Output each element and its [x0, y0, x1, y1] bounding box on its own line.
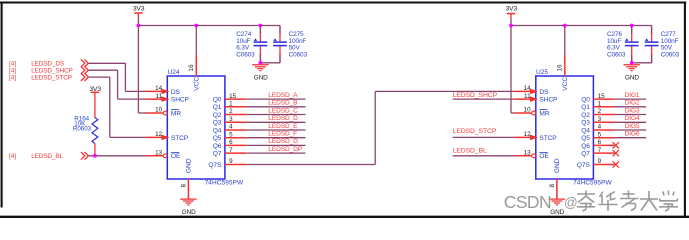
pin 14 DS of U24: [146, 85, 181, 96]
wire 3V3 down to U24 MR: [137, 26, 139, 114]
pin 1 Q1 of U25: [581, 101, 615, 112]
junction 2: [194, 24, 198, 28]
wire U25 Q2 net DIG3: [615, 114, 646, 116]
junction 5: [563, 24, 567, 28]
pin 7 Q7 of U25: [581, 147, 615, 158]
pin 8 GND of U24: [180, 158, 192, 199]
wire right 3V3 rail: [511, 25, 652, 27]
pin 8 GND of U25: [549, 158, 561, 199]
svg-text:Q5: Q5: [213, 135, 222, 142]
wire U25 Q1 net DIG2: [615, 106, 646, 108]
svg-text:Q3: Q3: [213, 120, 222, 127]
svg-text:U25: U25: [536, 69, 548, 76]
wire 3V3 down to U25 MR: [510, 26, 512, 114]
svg-text:5: 5: [229, 131, 233, 138]
power 3V3 (R164 pullup): [89, 86, 101, 97]
junction 1: [137, 24, 141, 28]
junction 7: [259, 61, 263, 65]
wire U24 Q5 net LEDSD_F: [246, 137, 305, 139]
watermark CSDN @ user: [504, 191, 678, 213]
svg-text:4: 4: [229, 124, 233, 131]
junction 4: [509, 24, 513, 28]
svg-text:DIG3: DIG3: [625, 107, 640, 114]
wire U24 Q6 net LEDSD_G: [246, 144, 305, 146]
pin 15 Q0 of U25: [581, 93, 615, 104]
svg-text:GND: GND: [254, 75, 268, 82]
svg-text:15: 15: [229, 93, 237, 100]
svg-text:GND: GND: [186, 158, 193, 173]
wire LEDSD_DS to U24 pin14: [89, 62, 126, 64]
svg-text:3V3: 3V3: [506, 5, 518, 12]
wire LEDSD_SHCP to U24 pin11: [89, 69, 118, 71]
wire U24 Q4 net LEDSD_E: [246, 129, 305, 131]
svg-text:LEDSD_F: LEDSD_F: [268, 131, 297, 138]
svg-text:C0603: C0603: [289, 51, 308, 58]
port LEDSD_BL: [9, 152, 88, 160]
junction 9: [93, 154, 97, 158]
svg-text:1: 1: [598, 101, 602, 108]
svg-text:Q7: Q7: [581, 151, 590, 158]
svg-text:11: 11: [524, 93, 531, 100]
svg-text:C0603: C0603: [236, 51, 255, 58]
wire rail to U24 VCC: [195, 26, 197, 56]
svg-text:MR: MR: [539, 110, 549, 117]
svg-text:74HC595PW: 74HC595PW: [573, 179, 612, 186]
svg-text:OE: OE: [539, 153, 549, 160]
wire net LEDSD_BL to U25 pin13: [453, 155, 515, 157]
wire gnd stem left caps: [259, 63, 261, 65]
pin 13 OE of U24: [146, 150, 181, 161]
svg-text:3V3: 3V3: [133, 5, 145, 12]
svg-text:3: 3: [598, 116, 602, 123]
wire U24 Q3 net LEDSD_D: [246, 121, 305, 123]
pin 14 DS of U25: [515, 85, 550, 96]
svg-text:1: 1: [229, 101, 233, 108]
ground (under C276/C277): [624, 65, 640, 82]
svg-text:MR: MR: [171, 110, 181, 117]
svg-text:9: 9: [598, 158, 602, 165]
svg-text:DIG2: DIG2: [625, 100, 640, 107]
svg-text:[4]: [4]: [9, 153, 16, 160]
svg-text:6: 6: [229, 139, 233, 146]
svg-text:DIG1: DIG1: [625, 92, 640, 99]
svg-text:Q1: Q1: [213, 104, 222, 111]
svg-text:Q3: Q3: [581, 120, 590, 127]
pin 11 SHCP of U24: [146, 93, 190, 104]
pin 9 Q7S of U24: [208, 158, 246, 169]
capacitor C274 (10uF 6.3V C0603): [236, 26, 267, 63]
svg-text:Q1: Q1: [581, 104, 590, 111]
wire cap bottom right pair: [632, 62, 652, 64]
sheet border right edge: [684, 2, 686, 217]
svg-text:14: 14: [524, 85, 532, 92]
pin 6 Q6 of U25: [581, 139, 615, 150]
svg-text:3: 3: [229, 116, 233, 123]
svg-text:R0603: R0603: [73, 126, 92, 133]
svg-text:9: 9: [229, 158, 233, 165]
wire left 3V3 rail: [138, 25, 280, 27]
IC U25 74HC595PW shift register: [536, 69, 613, 186]
svg-text:C0603: C0603: [661, 51, 680, 58]
svg-text:LEDSD_E: LEDSD_E: [268, 123, 298, 130]
capacitor C276 (10uF 6.3V C0603): [607, 26, 639, 63]
svg-text:VCC: VCC: [193, 77, 200, 91]
svg-text:7: 7: [598, 147, 602, 154]
wire U24 Q0 net LEDSD_A: [246, 98, 305, 100]
svg-text:GND: GND: [550, 209, 564, 216]
svg-text:GND: GND: [554, 158, 561, 173]
svg-text:STCP: STCP: [539, 135, 557, 142]
svg-text:4: 4: [598, 124, 602, 131]
pin 2 Q2 of U25: [581, 108, 615, 119]
pin 16 VCC of U25: [557, 55, 569, 91]
IC U24 74HC595PW shift register: [167, 69, 244, 186]
svg-text:13: 13: [155, 150, 163, 157]
svg-text:12: 12: [524, 131, 532, 138]
svg-text:Q2: Q2: [581, 112, 590, 119]
svg-text:DS: DS: [539, 89, 549, 96]
svg-text:LEDSD_B: LEDSD_B: [268, 100, 298, 107]
pin 3 Q3 of U25: [581, 116, 615, 127]
svg-text:74HC595PW: 74HC595PW: [205, 179, 244, 186]
svg-text:2: 2: [598, 108, 602, 115]
port LEDSD_SHCP: [9, 66, 88, 74]
svg-text:Q0: Q0: [213, 97, 222, 104]
svg-text:8: 8: [549, 184, 556, 188]
svg-text:Q7S: Q7S: [577, 162, 591, 169]
no-connect X U25 Q7: [613, 150, 619, 156]
svg-text:16: 16: [188, 64, 195, 72]
svg-text:GND: GND: [182, 209, 196, 216]
pin 12 STCP of U24: [146, 131, 189, 142]
pin 5 Q5 of U25: [581, 131, 615, 142]
svg-text:VCC: VCC: [562, 77, 569, 91]
wire net LEDSD_STCP to U25 pin12: [453, 136, 515, 138]
svg-text:5: 5: [598, 131, 602, 138]
svg-text:7: 7: [229, 147, 233, 154]
svg-text:LEDSD_DP: LEDSD_DP: [268, 146, 302, 153]
power 3V3 (top right rail): [506, 5, 518, 18]
svg-text:@: @: [564, 195, 578, 210]
svg-text:SHCP: SHCP: [171, 97, 190, 104]
svg-text:C0603: C0603: [607, 51, 626, 58]
pin 9 Q7S of U25: [577, 158, 615, 169]
pin 4 Q4 of U24: [213, 124, 247, 135]
svg-text:12: 12: [155, 131, 163, 138]
wire LEDSD_BL to U24 pin13: [89, 155, 146, 157]
svg-text:Q2: Q2: [213, 112, 222, 119]
pin 2 Q2 of U24: [213, 108, 247, 119]
svg-text:Q6: Q6: [581, 143, 590, 150]
pin 13 OE of U25: [515, 150, 550, 161]
svg-text:CSDN: CSDN: [504, 192, 551, 212]
svg-text:10: 10: [524, 107, 532, 114]
svg-text:GND: GND: [625, 75, 639, 82]
svg-text:Q0: Q0: [581, 97, 590, 104]
capacitor C277 (100nF 50V C0603): [645, 26, 680, 63]
svg-text:LEDSD_SHCP: LEDSD_SHCP: [453, 92, 498, 99]
svg-text:13: 13: [524, 150, 532, 157]
pin 15 Q0 of U24: [213, 93, 247, 104]
wire 3V3 stem to right rail: [510, 18, 512, 25]
wire U24 Q7S to U25 DS: [246, 164, 375, 166]
pin 12 STCP of U25: [515, 131, 558, 142]
pin 10 MR of U25: [515, 107, 550, 118]
svg-text:LEDSD_BL: LEDSD_BL: [453, 148, 487, 155]
svg-text:6: 6: [598, 139, 602, 146]
wire net LEDSD_SHCP to U25 pin11: [453, 98, 515, 100]
svg-text:OE: OE: [171, 153, 181, 160]
port LEDSD_DS: [9, 59, 88, 67]
wire U24 Q2 net LEDSD_C: [246, 114, 305, 116]
ground (U24 pin 8): [180, 199, 196, 216]
junction 3: [259, 24, 263, 28]
pin 5 Q5 of U24: [213, 131, 247, 142]
svg-text:2: 2: [229, 108, 233, 115]
pin 11 SHCP of U25: [515, 93, 559, 104]
wire 3V3 stem to left rail: [137, 18, 139, 26]
svg-text:15: 15: [598, 93, 606, 100]
wire rail to U25 VCC: [564, 26, 566, 56]
svg-text:14: 14: [155, 85, 163, 92]
pin 1 Q1 of U24: [213, 101, 247, 112]
wire U25 Q4 net DIG5: [615, 129, 646, 131]
pin 7 Q7 of U24: [213, 147, 247, 158]
sheet border top edge: [0, 1, 686, 3]
ground (under C274/C275): [252, 65, 268, 82]
no-connect X U25 Q6: [613, 142, 619, 148]
junction 8: [630, 61, 634, 65]
power 3V3 (top left rail): [133, 5, 145, 17]
wire U25 Q3 net DIG4: [615, 121, 646, 123]
junction 6: [630, 24, 634, 28]
wire cap bottom left pair: [260, 62, 280, 64]
sheet border left edge: [1, 2, 3, 208]
svg-text:Q7: Q7: [213, 151, 222, 158]
svg-text:LEDSD_STCP: LEDSD_STCP: [453, 128, 497, 135]
wire gnd stem right caps: [631, 63, 633, 65]
capacitor C275 (100nF 50V C0603): [273, 26, 307, 63]
pin 10 MR of U24: [146, 107, 181, 118]
pin 3 Q3 of U24: [213, 116, 247, 127]
svg-text:LEDSD_STCP: LEDSD_STCP: [31, 75, 72, 82]
svg-text:SHCP: SHCP: [539, 97, 558, 104]
pin 16 VCC of U24: [188, 55, 200, 91]
svg-text:10: 10: [155, 107, 163, 114]
svg-text:LEDSD_A: LEDSD_A: [268, 92, 298, 99]
wire U24 Q1 net LEDSD_B: [246, 106, 305, 108]
svg-text:DIG5: DIG5: [625, 123, 640, 130]
no-connect X U25 Q7S: [613, 161, 619, 167]
ground (U25 pin 8): [549, 199, 565, 216]
svg-text:LEDSD_BL: LEDSD_BL: [31, 153, 63, 160]
svg-text:Q7S: Q7S: [208, 162, 222, 169]
svg-text:Q6: Q6: [213, 143, 222, 150]
svg-text:Q4: Q4: [581, 127, 590, 134]
svg-text:DS: DS: [171, 89, 181, 96]
svg-text:16: 16: [557, 64, 564, 72]
svg-text:LEDSD_C: LEDSD_C: [268, 107, 298, 114]
wire U25 Q0 net DIG1: [615, 98, 646, 100]
wire LEDSD_STCP to U24 pin12: [89, 76, 110, 78]
svg-text:Q4: Q4: [213, 127, 222, 134]
svg-text:U24: U24: [168, 69, 180, 76]
svg-text:Q5: Q5: [581, 135, 590, 142]
pin 4 Q4 of U25: [581, 124, 615, 135]
port LEDSD_STCP: [9, 73, 88, 81]
sheet border bottom edge: [0, 216, 689, 218]
wire U25 Q5 net DIG6: [615, 137, 646, 139]
svg-text:[4]: [4]: [9, 75, 16, 82]
svg-text:8: 8: [180, 184, 187, 188]
svg-text:STCP: STCP: [171, 135, 189, 142]
svg-text:LEDSD_G: LEDSD_G: [268, 138, 298, 145]
pin 6 Q6 of U24: [213, 139, 247, 150]
resistor R164 10K pullup: [73, 97, 98, 156]
svg-text:11: 11: [156, 93, 163, 100]
svg-text:DIG6: DIG6: [625, 131, 640, 138]
svg-text:DIG4: DIG4: [625, 115, 640, 122]
wire U24 Q7 net LEDSD_DP: [246, 152, 305, 154]
svg-text:LEDSD_D: LEDSD_D: [268, 115, 298, 122]
